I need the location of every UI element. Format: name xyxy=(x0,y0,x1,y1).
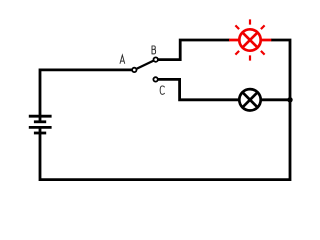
junction node (right rail / lamp L2) xyxy=(287,97,292,102)
battery short plate (top cell -) xyxy=(34,120,46,123)
lamp L1 (lit, red) xyxy=(239,29,260,50)
switch pole contact A xyxy=(132,68,136,72)
wire: battery bottom, bottom rail, right rail up to lamp L1 lead xyxy=(40,40,290,180)
lamp L1 red leads xyxy=(229,39,271,42)
label B xyxy=(152,46,156,54)
switch lever (A to B) xyxy=(134,60,155,70)
wire: switch contact B to lamp L1 (upper branch) xyxy=(158,40,230,60)
lamp L2 (off, black) xyxy=(239,89,260,110)
battery long plate (bottom cell +) xyxy=(29,126,52,129)
battery long plate (top cell +) xyxy=(29,115,52,118)
label A xyxy=(120,55,125,64)
switch contact B xyxy=(154,57,158,61)
battery short plate (bottom cell -) xyxy=(34,132,46,135)
wire: left branch from switch pole A to battery top xyxy=(40,70,134,122)
lamp L1 rays (lit indicator) xyxy=(235,19,264,60)
switch contact C xyxy=(153,77,157,81)
label C xyxy=(160,86,164,94)
wire: switch contact C to lamp L2 (lower branch) xyxy=(158,79,290,99)
